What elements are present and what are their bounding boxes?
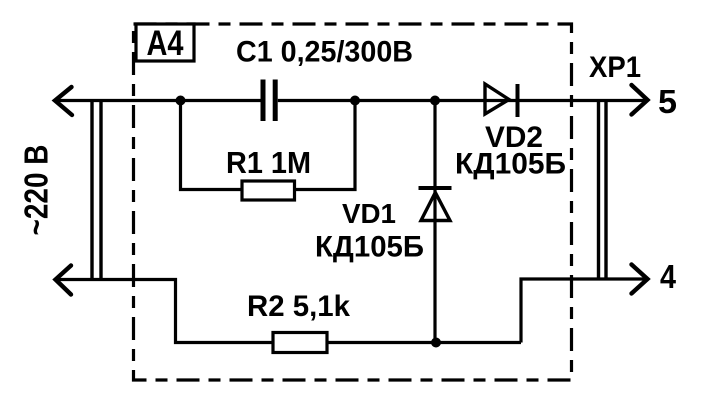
block designator box A4 bbox=[136, 24, 194, 63]
resistor R1 bbox=[242, 181, 295, 200]
label pin 4 bbox=[660, 258, 677, 295]
svg-text:КД105Б: КД105Б bbox=[455, 148, 566, 181]
left cable line b bbox=[99, 101, 102, 280]
capacitor C1 plates bbox=[263, 80, 275, 122]
label VD2 bbox=[485, 121, 543, 154]
svg-text:C1 0,25/300В: C1 0,25/300В bbox=[236, 36, 413, 69]
node junction at R1 right riser bbox=[350, 96, 360, 106]
diode VD1 cathode bar bbox=[419, 186, 452, 190]
svg-text:КД105Б: КД105Б bbox=[315, 231, 424, 264]
label pin 5 bbox=[658, 83, 677, 120]
resistor R2 bbox=[273, 333, 327, 353]
label VD2 type KD105B bbox=[455, 148, 566, 181]
wire: top bus middle segment bbox=[278, 99, 647, 102]
dashed enclosure border (module boundary) bbox=[134, 24, 572, 380]
label VD1 type KD105B bbox=[315, 231, 424, 264]
wire: R1 left branch bbox=[181, 101, 244, 190]
wire: bottom left segment with left arrow bbox=[56, 266, 274, 343]
left cable line a bbox=[90, 101, 93, 280]
label R2 5,1k bbox=[247, 290, 350, 323]
node junction at VD1 top bbox=[430, 96, 440, 106]
arrow to pin 5 bbox=[632, 85, 648, 115]
diode VD1 triangle bbox=[421, 193, 450, 221]
svg-text:A4: A4 bbox=[147, 24, 184, 63]
node junction VD1 bottom bbox=[431, 338, 441, 348]
label VD1 bbox=[342, 198, 396, 229]
diode VD2 triangle bbox=[485, 84, 509, 114]
wire: bottom right riser and segment with right arrow to pin 4 bbox=[521, 265, 648, 343]
wire: bottom middle segment bbox=[327, 341, 521, 344]
svg-text:XP1: XP1 bbox=[589, 51, 641, 84]
diode VD2 cathode bar bbox=[516, 84, 520, 117]
svg-text:4: 4 bbox=[660, 258, 677, 295]
svg-text:VD1: VD1 bbox=[342, 198, 396, 229]
svg-text:5: 5 bbox=[658, 83, 677, 120]
svg-text:R2 5,1k: R2 5,1k bbox=[247, 290, 350, 323]
connector XP1 line b bbox=[604, 101, 607, 280]
wire: top bus left segment with left arrow bbox=[55, 87, 261, 115]
node junction at R1 left drop bbox=[176, 96, 186, 106]
svg-text:R1 1M: R1 1M bbox=[226, 145, 311, 180]
label ~220 V bbox=[18, 145, 55, 236]
label C1 value bbox=[236, 36, 413, 69]
wire: VD1 vertical lead bbox=[433, 101, 436, 343]
label XP1 bbox=[589, 51, 641, 84]
connector XP1 line a bbox=[597, 101, 600, 280]
svg-text:~220 В: ~220 В bbox=[18, 145, 55, 236]
label R1 1M bbox=[226, 145, 311, 180]
wire: R1 right branch bbox=[295, 101, 356, 190]
